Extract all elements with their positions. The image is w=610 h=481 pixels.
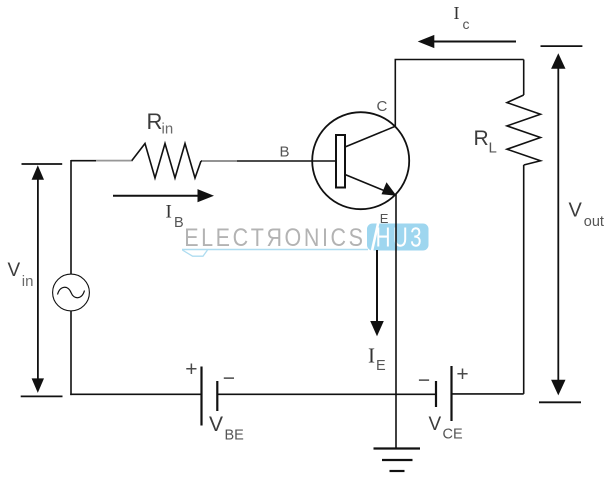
svg-text:B: B: [174, 215, 184, 231]
svg-text:I: I: [454, 3, 460, 23]
svg-text:V: V: [569, 199, 583, 221]
svg-text:BE: BE: [225, 427, 245, 443]
svg-text:L: L: [489, 140, 497, 157]
svg-text:I: I: [368, 344, 375, 368]
svg-text:HU3: HU3: [376, 223, 424, 254]
svg-text:CE: CE: [443, 427, 463, 443]
svg-text:out: out: [584, 214, 604, 230]
svg-text:V: V: [429, 414, 442, 435]
svg-text:R: R: [147, 109, 163, 134]
svg-text:C: C: [377, 98, 388, 115]
svg-text:−: −: [418, 369, 430, 392]
svg-text:+: +: [456, 363, 468, 386]
svg-text:c: c: [463, 16, 470, 32]
svg-text:I: I: [166, 202, 172, 223]
svg-text:E: E: [376, 358, 386, 374]
svg-text:V: V: [209, 413, 223, 436]
svg-text:R: R: [474, 127, 489, 150]
svg-text:B: B: [280, 144, 290, 161]
svg-text:V: V: [8, 260, 21, 281]
svg-text:+: +: [185, 358, 197, 381]
svg-text:E: E: [380, 211, 389, 226]
svg-text:−: −: [223, 367, 235, 390]
svg-text:in: in: [22, 273, 34, 290]
svg-text:ELECTЯONICS: ELECTЯONICS: [184, 224, 365, 252]
svg-text:in: in: [162, 121, 174, 138]
